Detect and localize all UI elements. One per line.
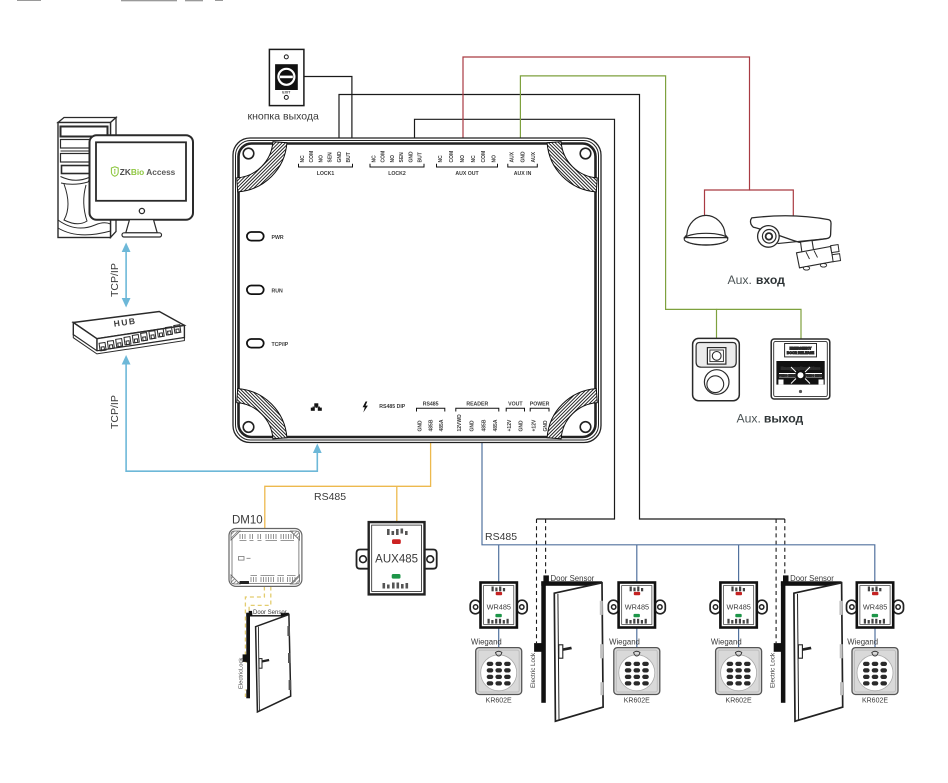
svg-text:BUT: BUT	[346, 152, 352, 162]
svg-text:RS485: RS485	[423, 402, 439, 408]
panel terminal group READER (bottom)	[456, 402, 499, 432]
wire black: LOCK1 GND up over panel to door2 circuit	[339, 95, 785, 520]
svg-text:NO: NO	[390, 155, 396, 163]
wire green: AUX IN to Aux output devices	[520, 76, 716, 339]
power flash icon on panel	[363, 402, 368, 413]
svg-text:TCP/IP: TCP/IP	[109, 263, 121, 297]
svg-text:POWER: POWER	[530, 402, 550, 408]
svg-text:NO: NO	[492, 155, 498, 163]
svg-text:RS485 DIP: RS485 DIP	[379, 404, 405, 410]
electric lock door3	[243, 654, 249, 662]
PC monitor	[90, 135, 194, 237]
panel terminal group POWER (bottom)	[530, 402, 550, 432]
svg-text:NO: NO	[460, 155, 466, 163]
wire red: AUX OUT to Aux input devices	[463, 57, 750, 216]
svg-text:GND: GND	[408, 151, 414, 163]
wire orange: panel RS485 to DM10	[265, 443, 431, 529]
svg-text:Wiegand: Wiegand	[711, 638, 742, 647]
access control panel body	[233, 138, 601, 443]
wire navy: drop reader2	[636, 545, 638, 583]
svg-text:485B: 485B	[428, 419, 434, 431]
DM10 bottom terminal ticks	[251, 576, 296, 583]
AUX485 red LED	[392, 539, 401, 544]
svg-text:AUX IN: AUX IN	[514, 171, 532, 177]
svg-text:Door Sensor: Door Sensor	[253, 610, 287, 616]
svg-text:PWR: PWR	[272, 235, 284, 241]
wire navy: reader1 to keypad1 wiegand	[498, 628, 500, 649]
panel terminal group LOCK1	[299, 151, 353, 177]
svg-text:COM: COM	[381, 151, 387, 163]
svg-text:SEN: SEN	[399, 152, 405, 163]
panel terminal group RS485 (bottom)	[417, 402, 446, 432]
svg-text:NC: NC	[300, 155, 306, 163]
wire navy: reader2 to keypad2 wiegand	[636, 628, 638, 649]
svg-text:EXIT: EXIT	[282, 91, 291, 95]
svg-text:AUX OUT: AUX OUT	[455, 171, 479, 177]
wire navy: reader RS485 bus	[482, 443, 875, 583]
keypad KR602E #4	[852, 648, 898, 695]
svg-text:DOOR RELEASE: DOOR RELEASE	[787, 351, 815, 355]
svg-text:NC: NC	[438, 155, 444, 163]
svg-text:RS485: RS485	[485, 531, 517, 543]
wire dashed: door2 electric lock drop	[775, 519, 777, 643]
panel corner hatch bottom-right	[547, 389, 597, 439]
svg-text:EmergencyBreakGlass: EmergencyBreakGlass	[781, 366, 820, 370]
keypad KR602E #2	[614, 648, 660, 695]
svg-text:GND: GND	[519, 420, 525, 432]
svg-text:RS485: RS485	[314, 491, 346, 503]
wire dashed: door1 door sensor drop	[545, 519, 547, 575]
CCTV camera (Aux input)	[751, 216, 841, 270]
wire blue: HUB to panel tcp/ip	[122, 355, 322, 471]
svg-text:READER: READER	[466, 402, 488, 408]
DM10 module	[229, 529, 302, 587]
exit button	[269, 49, 304, 105]
svg-text:GND: GND	[418, 420, 424, 432]
svg-text:DM10: DM10	[232, 515, 263, 527]
svg-text:GND: GND	[337, 151, 343, 163]
wire navy: reader3 to keypad3 wiegand	[738, 628, 740, 649]
svg-text:PRESS HERE: PRESS HERE	[779, 373, 796, 377]
panel corner hatch top-right	[547, 142, 597, 192]
door 3 (DM10 door)	[246, 613, 291, 712]
door 1 with frame	[541, 575, 603, 721]
svg-text:GND: GND	[543, 420, 549, 432]
wire red: branch to camera	[750, 190, 794, 218]
AUX485 bottom pins	[383, 583, 409, 589]
wire green: branch to break glass	[717, 309, 802, 339]
wire blue: PC to HUB tcp/ip double arrow	[122, 243, 131, 308]
panel corner hatch bottom-left	[237, 389, 287, 439]
electric lock door2	[774, 643, 782, 652]
svg-text:AUX: AUX	[531, 151, 537, 162]
wire navy: drop reader3	[738, 545, 740, 583]
AUX485 green LED	[392, 574, 401, 579]
svg-text:Door Sensor: Door Sensor	[790, 574, 834, 583]
svg-text:COM: COM	[449, 151, 455, 163]
reader WR485 #4	[847, 583, 904, 628]
DM10 inner small marks	[239, 557, 251, 585]
svg-text:Wiegand: Wiegand	[847, 638, 878, 647]
svg-text:GND: GND	[520, 151, 526, 163]
ethernet icon on panel	[311, 403, 322, 411]
svg-text:KR602E: KR602E	[862, 698, 888, 705]
panel corner hatch top-left	[237, 142, 287, 192]
svg-text:LOCK2: LOCK2	[388, 171, 406, 177]
door sensor door3	[249, 611, 252, 615]
LED RUN	[247, 286, 283, 295]
svg-text:485A: 485A	[493, 419, 499, 431]
svg-text:KR602E: KR602E	[726, 698, 752, 705]
panel terminal group AUX OUT	[437, 151, 498, 177]
svg-text:GND: GND	[470, 420, 476, 432]
door 2 with frame	[781, 575, 843, 721]
svg-text:TCP/IP: TCP/IP	[272, 342, 289, 348]
svg-text:Door Sensor: Door Sensor	[551, 574, 595, 583]
wire navy: drop reader1	[498, 545, 500, 583]
svg-text:+12V: +12V	[531, 419, 537, 431]
wire orange: branch to AUX485	[396, 486, 398, 522]
svg-text:NC: NC	[471, 155, 477, 163]
svg-text:PRESS HERE: PRESS HERE	[805, 373, 822, 377]
svg-text:Aux.вход: Aux.вход	[728, 273, 786, 287]
svg-text:ElectricLock: ElectricLock	[239, 658, 245, 689]
svg-text:SEN: SEN	[328, 152, 334, 163]
reader WR485 #3	[710, 583, 767, 628]
svg-text:KR602E: KR602E	[486, 698, 512, 705]
svg-text:LOCK1: LOCK1	[317, 171, 335, 177]
svg-text:Aux.выход: Aux.выход	[737, 412, 804, 426]
svg-text:KR602E: KR602E	[624, 698, 650, 705]
label ElectricLock door3	[241, 663, 247, 690]
label Door Sensor door3	[252, 608, 280, 615]
svg-text:Electric Lock: Electric Lock	[530, 652, 537, 688]
HUB ports	[98, 325, 182, 351]
siren dome (Aux input)	[684, 215, 728, 245]
svg-text:COM: COM	[481, 151, 487, 163]
logo ZKBio Access on screen	[111, 167, 175, 177]
keypad KR602E #1	[476, 648, 522, 695]
svg-text:TCP/IP: TCP/IP	[109, 395, 121, 429]
wire black: LOCK2 pin up over panel to door1 circuit	[415, 119, 615, 519]
svg-text:ZKBio Access: ZKBio Access	[120, 167, 176, 177]
svg-text:+12V: +12V	[507, 419, 513, 431]
svg-text:AUX: AUX	[509, 151, 515, 162]
svg-text:RUN: RUN	[272, 289, 283, 295]
svg-text:Electric Lock: Electric Lock	[769, 652, 776, 688]
DM10 top terminal ticks	[240, 534, 295, 541]
network HUB	[73, 312, 184, 354]
wire dashed yellow: DM10 to door3 door sensor	[249, 587, 271, 612]
reader WR485 #2	[608, 583, 665, 628]
svg-text:12VWD: 12VWD	[457, 414, 463, 432]
LED PWR	[247, 232, 284, 241]
electric lock door1	[534, 643, 542, 652]
LED TCP/IP	[247, 339, 289, 348]
svg-text:Wiegand: Wiegand	[609, 638, 640, 647]
svg-text:NC: NC	[372, 155, 378, 163]
AUX485 module	[357, 522, 437, 594]
panel terminal group AUX IN	[508, 151, 538, 177]
panel terminal group LOCK2	[370, 151, 424, 177]
wire dashed: door1 electric lock drop	[536, 519, 538, 643]
top crop artifact segments	[17, 0, 223, 1]
panel terminal group VOUT (bottom)	[506, 402, 525, 432]
svg-text:485A: 485A	[439, 419, 445, 431]
wire dashed: door2 door sensor drop	[784, 519, 786, 575]
svg-text:485B: 485B	[481, 419, 487, 431]
keypad KR602E #3	[716, 648, 762, 695]
svg-text:NO: NO	[318, 155, 324, 163]
svg-text:COM: COM	[309, 151, 315, 163]
wire navy: reader4 to keypad4 wiegand	[874, 628, 876, 649]
reader WR485 #1	[470, 583, 527, 628]
wire dashed yellow: DM10 to door3 electric lock	[245, 587, 264, 698]
svg-text:BUT: BUT	[418, 152, 424, 162]
svg-text:AUX485: AUX485	[375, 554, 418, 566]
svg-text:Wiegand: Wiegand	[471, 638, 502, 647]
svg-text:EMERGENCY: EMERGENCY	[790, 346, 813, 350]
svg-text:VOUT: VOUT	[508, 402, 523, 408]
PC tower	[58, 118, 116, 238]
intercom (Aux output)	[693, 338, 740, 400]
emergency break glass (Aux output)	[771, 339, 830, 399]
AUX485 top pins	[387, 529, 408, 536]
svg-text:кнопка выхода: кнопка выхода	[248, 111, 319, 123]
wire black: exit button to LOCK1 BUT pin	[304, 77, 352, 140]
